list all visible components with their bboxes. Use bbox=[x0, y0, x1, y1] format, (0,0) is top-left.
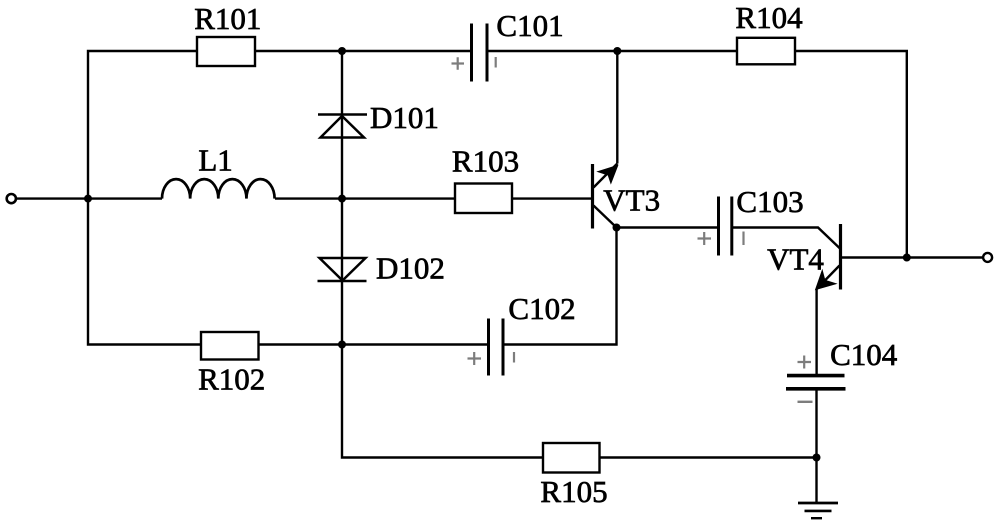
svg-text:D101: D101 bbox=[370, 100, 439, 135]
svg-text:R105: R105 bbox=[540, 474, 607, 509]
svg-text:VT4: VT4 bbox=[767, 242, 824, 277]
svg-text:R102: R102 bbox=[198, 362, 265, 397]
svg-text:D102: D102 bbox=[376, 251, 445, 286]
svg-text:R103: R103 bbox=[452, 144, 519, 179]
svg-text:L1: L1 bbox=[198, 143, 232, 178]
svg-text:R104: R104 bbox=[735, 0, 803, 35]
svg-text:C102: C102 bbox=[508, 291, 575, 326]
svg-text:C104: C104 bbox=[830, 337, 898, 372]
svg-text:C101: C101 bbox=[496, 8, 563, 43]
svg-text:C103: C103 bbox=[736, 184, 803, 219]
svg-text:R101: R101 bbox=[194, 1, 261, 36]
svg-text:VT3: VT3 bbox=[603, 183, 660, 218]
